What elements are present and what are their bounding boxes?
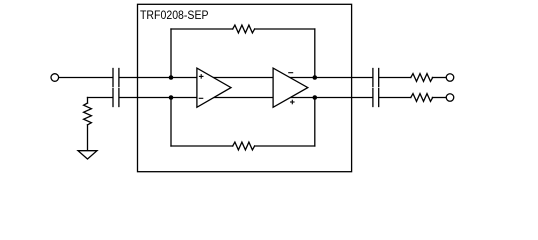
- resistor R1 shunt to ground (vertical zigzag): [84, 103, 92, 125]
- wire: shunt branch down to resistor: [87, 98, 89, 104]
- wire: top output line from cap to series resistor: [379, 77, 411, 79]
- terminal: input port circle: [51, 74, 59, 82]
- terminal: output port circle bottom: [446, 94, 454, 102]
- wire: top feedback right vertical: [314, 29, 316, 78]
- wire: bottom input line from shunt corner to cap: [88, 97, 113, 99]
- wire: top input line IN+ to first cap: [59, 77, 113, 79]
- capacitor C2 input bottom (plates): [113, 89, 119, 107]
- svg-text:TRF0208-SEP: TRF0208-SEP: [140, 8, 209, 22]
- ground symbol: [78, 151, 97, 159]
- terminal: output port circle top: [446, 74, 454, 82]
- wire: bottom output line resistor to terminal: [432, 97, 446, 99]
- node: junction dot input bottom: [169, 95, 174, 100]
- node: junction dot output top: [313, 75, 318, 80]
- op-amp U1 first stage (triangle): [197, 68, 231, 107]
- resistor R5 output bottom series: [411, 94, 433, 102]
- wire: top feedback left vertical: [170, 29, 172, 78]
- resistor R4 output top series: [411, 74, 433, 82]
- pin label: U2 minus (top output polarity): [288, 72, 293, 74]
- capacitor C3 output top (plates): [373, 69, 379, 87]
- wire: bottom feedback horizontal right segment: [255, 145, 315, 147]
- pin label: U1 minus (inverting input): [199, 97, 204, 99]
- wire: bottom feedback right vertical: [314, 98, 316, 147]
- node: junction dot input top: [169, 75, 174, 80]
- resistor R2 top feedback: [233, 25, 255, 33]
- IC boundary box TRF0208-SEP: [138, 4, 352, 171]
- wire: bottom feedback left vertical: [170, 98, 172, 147]
- wire: bottom line from cap to output cap (through box): [120, 97, 373, 99]
- pin label: U1 plus (non-inverting input): [199, 74, 204, 79]
- node: junction dot output bottom: [313, 95, 318, 100]
- op-amp U2 second stage (triangle): [273, 68, 308, 107]
- wire: top feedback horizontal left segment: [171, 28, 233, 30]
- resistor R3 bottom feedback: [233, 142, 255, 150]
- wire: resistor to ground stem: [87, 125, 89, 151]
- wire: bottom feedback horizontal left segment: [171, 145, 233, 147]
- pin label: U2 plus (bottom output polarity): [290, 100, 295, 105]
- wire: top feedback horizontal right segment: [255, 28, 315, 30]
- wire: bottom output line from cap to series resistor: [379, 97, 411, 99]
- wire: top line from cap to output cap (through box): [120, 77, 373, 79]
- wire: top output line resistor to terminal: [432, 77, 446, 79]
- capacitor C4 output bottom (plates): [373, 89, 379, 107]
- capacitor C1 input top (plates): [113, 69, 119, 87]
